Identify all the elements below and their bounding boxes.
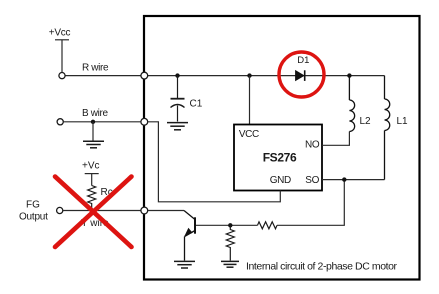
wire: Y wire to transistor collector [148, 210, 184, 212]
svg-text:SO: SO [305, 175, 319, 186]
transistor Q1 (NPN, mirrored) [184, 211, 195, 261]
wire: R wire main horizontal run [65, 75, 384, 77]
ground under resistor [221, 261, 239, 267]
terminal FG Output (open circle) [57, 207, 63, 213]
svg-text:FS276: FS276 [263, 151, 297, 165]
ground under C1 [167, 123, 188, 130]
ground under B wire [83, 141, 104, 148]
wire: VCC pin riser [249, 76, 251, 125]
wire: B ground stub [92, 122, 94, 141]
svg-text:+Vc: +Vc [82, 161, 100, 172]
svg-text:R wire: R wire [82, 63, 109, 74]
node junction dot B ground branch [91, 120, 95, 124]
diode D1 [296, 70, 305, 81]
inductor L1 [385, 76, 390, 180]
wire: B wire inside box to GND pin [148, 122, 281, 202]
svg-text:D1: D1 [297, 55, 309, 66]
wire: base line to SO riser [277, 180, 344, 226]
node junction dot VCC branch [247, 73, 251, 77]
motor internal circuit boundary box [144, 16, 420, 280]
resistor Rc (vertical zigzag) [88, 186, 96, 211]
wire: base to resistor network [196, 224, 258, 226]
svg-text:L1: L1 [397, 116, 409, 127]
wire: NO pin to L2 [322, 132, 349, 146]
node junction dot C1 branch [175, 73, 179, 77]
inductor L2 [349, 76, 354, 132]
node: R wire feedthrough on boundary (open circle) [141, 72, 148, 79]
capacitor C1 [171, 76, 185, 122]
red highlight circle around D1 [279, 52, 324, 97]
B wire supply terminal circle [57, 119, 63, 125]
+Vcc supply terminal [55, 40, 69, 73]
node junction dot SO [342, 177, 346, 181]
wire: SO pin to L1 [322, 179, 385, 181]
ground under emitter [174, 261, 195, 268]
svg-text:+Vcc: +Vcc [49, 28, 71, 39]
node junction dot L2 branch [347, 73, 351, 77]
terminal R wire (open circle) [59, 73, 65, 79]
svg-text:VCC: VCC [239, 129, 259, 140]
svg-text:GND: GND [270, 175, 291, 186]
svg-text:NO: NO [305, 140, 320, 151]
resistor R (vertical zigzag to ground) [226, 225, 234, 260]
svg-text:L2: L2 [360, 116, 372, 127]
transistor emitter arrowhead [185, 228, 193, 236]
+Vc pull-up terminal [85, 174, 99, 186]
node: Y wire feedthrough on boundary (open circle) [141, 207, 148, 214]
wire: Y wire horizontal [63, 210, 143, 212]
svg-text:FG: FG [26, 199, 40, 210]
svg-text:B wire: B wire [82, 108, 108, 119]
resistor R2 (horizontal zigzag in base line) [258, 222, 278, 229]
svg-text:Internal circuit of 2-phase DC: Internal circuit of 2-phase DC motor [246, 260, 398, 272]
svg-text:C1: C1 [190, 99, 203, 110]
IC U1 FS276 box [234, 125, 322, 191]
node junction dot base resistor [228, 223, 232, 227]
node: B wire feedthrough on boundary (open circle) [141, 118, 148, 125]
red X cross-out over Y wire [55, 177, 132, 248]
node junction dot Y wire / Rc [90, 208, 94, 212]
svg-text:Output: Output [19, 211, 48, 222]
wire: B wire horizontal [63, 121, 143, 123]
